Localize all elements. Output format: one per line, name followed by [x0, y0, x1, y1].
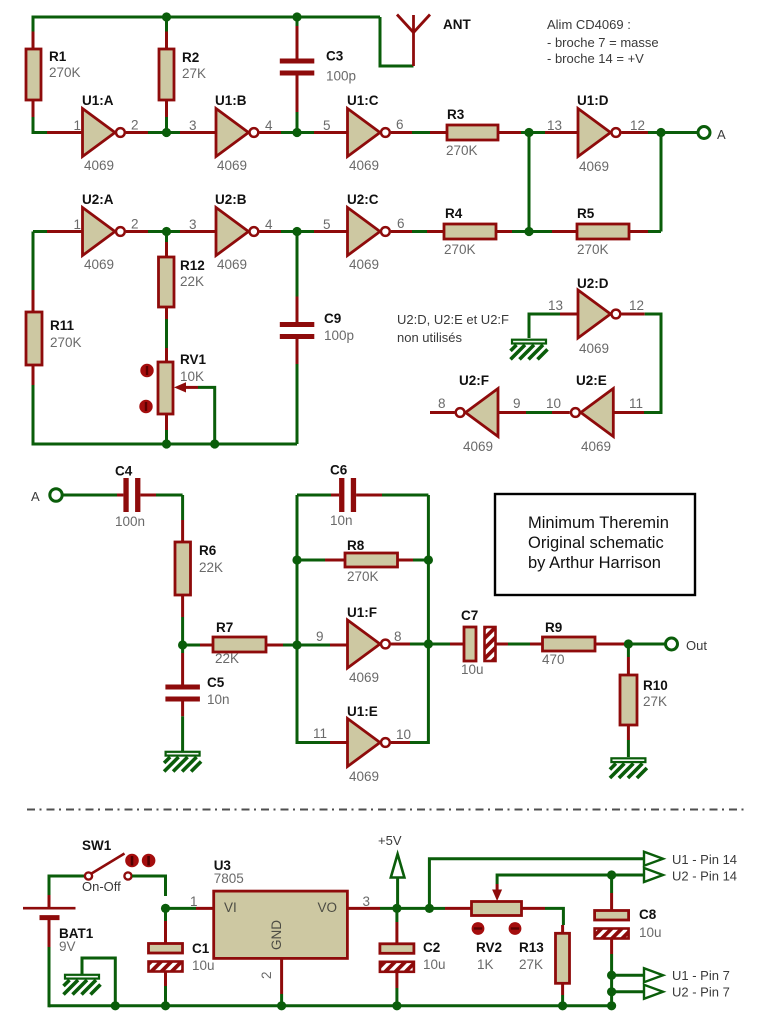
svg-text:2: 2 — [131, 118, 139, 133]
svg-text:U1:B: U1:B — [215, 93, 247, 108]
svg-text:27K: 27K — [519, 957, 543, 972]
wire C7 to R9 — [508, 643, 530, 646]
wire U3 pin3 to +5V node — [380, 907, 397, 910]
pin 4 stub U1:B output — [260, 131, 282, 134]
RV2 wiper arrow — [496, 884, 499, 891]
svg-text:C4: C4 — [115, 464, 133, 479]
svg-text:Out: Out — [686, 638, 707, 653]
pin 8 stub U2:F output — [430, 411, 455, 414]
capacitor C5 10n — [165, 645, 229, 751]
wire to U1 pin 7 — [612, 974, 644, 977]
svg-text:R9: R9 — [545, 620, 562, 635]
junction — [524, 227, 533, 236]
svg-text:GND: GND — [269, 920, 284, 950]
svg-text:270K: 270K — [347, 569, 379, 584]
svg-text:R13: R13 — [519, 940, 544, 955]
wire SW1 node to U3 pin1 — [166, 907, 197, 910]
svg-text:2: 2 — [131, 217, 139, 232]
wire — [497, 875, 644, 884]
junction — [161, 1001, 170, 1010]
pin 13 stub U2:D — [560, 313, 578, 316]
svg-text:U2:E: U2:E — [576, 373, 607, 388]
arrow U2 pin 14 — [644, 868, 663, 882]
arrow U2 pin 7 — [644, 985, 663, 999]
svg-text:27K: 27K — [182, 66, 206, 81]
svg-text:R7: R7 — [216, 620, 233, 635]
potentiometer RV2 1K — [429, 884, 563, 972]
resistor R12 22K — [159, 232, 205, 363]
junction — [162, 12, 171, 21]
RV1 bottom stub — [165, 414, 168, 430]
pin 9 stub U2:F — [498, 411, 526, 414]
svg-text:C7: C7 — [461, 608, 478, 623]
pin 10 stub U1:E output — [391, 741, 410, 744]
wire — [529, 314, 560, 338]
svg-text:U2:B: U2:B — [215, 192, 247, 207]
ground (R10) — [610, 758, 647, 778]
svg-text:1K: 1K — [477, 957, 494, 972]
inverter U2:B (4069) — [215, 192, 258, 272]
svg-text:4: 4 — [265, 217, 273, 232]
wire SW1 to C1 node — [132, 876, 166, 896]
svg-text:10u: 10u — [423, 957, 446, 972]
svg-text:On-Off: On-Off — [82, 879, 121, 894]
inverter U1:A (4069) — [82, 93, 125, 173]
svg-text:U2:D, U2:E et U2:F: U2:D, U2:E et U2:F — [397, 312, 509, 327]
inverter U2:D (4069) — [577, 276, 620, 356]
svg-text:Alim CD4069 :: Alim CD4069 : — [547, 17, 631, 32]
pin 6 stub U1:C output — [391, 131, 412, 134]
svg-text:- broche 7 = masse: - broche 7 = masse — [547, 35, 659, 50]
junction — [656, 128, 665, 137]
ground (battery) — [82, 958, 115, 1006]
svg-text:6: 6 — [396, 117, 404, 132]
resistor R11 270K — [26, 232, 82, 445]
wire — [429, 859, 644, 909]
pin 1 stub U3 — [196, 907, 214, 910]
svg-text:1: 1 — [190, 894, 198, 909]
battery BAT1 9V — [23, 895, 94, 1007]
potentiometer RV1 10K — [139, 352, 214, 444]
svg-text:7805: 7805 — [214, 871, 244, 886]
wire U1:A out to junction — [148, 131, 180, 134]
svg-text:C1: C1 — [192, 941, 210, 956]
inverter U1:C (4069) — [347, 93, 390, 173]
wire to U2 pin 7 — [612, 990, 644, 993]
svg-text:4069: 4069 — [581, 439, 611, 454]
svg-text:3: 3 — [363, 894, 371, 909]
capacitor C8 10u (electrolytic) — [595, 875, 662, 1006]
junction — [425, 904, 434, 913]
wire output junction to C7 — [428, 643, 450, 646]
svg-text:R6: R6 — [199, 543, 217, 558]
resistor R9 470 — [530, 620, 628, 667]
junction — [111, 1001, 120, 1010]
svg-text:SW1: SW1 — [82, 838, 112, 853]
wire — [33, 232, 297, 445]
resistor R6 22K — [175, 520, 223, 646]
terminal Out — [666, 638, 678, 650]
svg-text:100p: 100p — [326, 69, 356, 84]
ground (U2:D input) — [511, 340, 548, 360]
junction — [210, 439, 219, 448]
svg-text:by Arthur Harrison: by Arthur Harrison — [528, 554, 661, 572]
title box — [495, 494, 695, 595]
svg-text:U1:E: U1:E — [347, 704, 378, 719]
pin 2 stub U1:A output — [126, 131, 148, 134]
svg-text:C8: C8 — [639, 907, 657, 922]
ground (C5) — [164, 752, 201, 772]
junction — [161, 904, 170, 913]
RV2 left stub — [445, 907, 472, 910]
terminal A (oscillator output) — [698, 127, 710, 139]
svg-text:R8: R8 — [347, 538, 365, 553]
pin 1 stub U2:A — [47, 230, 83, 233]
pin 13 stub U1:D — [545, 131, 578, 134]
svg-text:U1 - Pin 14: U1 - Pin 14 — [672, 852, 737, 867]
junction — [524, 128, 533, 137]
inverter U1:F (4069) — [347, 605, 390, 685]
wire — [528, 133, 531, 232]
junction — [392, 1001, 401, 1010]
wire net to U2:A input — [33, 230, 47, 233]
junction — [607, 987, 616, 996]
svg-text:RV1: RV1 — [180, 352, 207, 367]
junction — [162, 128, 171, 137]
svg-text:VI: VI — [224, 900, 237, 915]
pin 2 stub U3 — [280, 958, 283, 994]
switch SW1 On-Off — [49, 838, 166, 896]
wire U2:B out to U2:C — [281, 230, 314, 233]
svg-text:U1:F: U1:F — [347, 605, 377, 620]
wire U1:F out to junction — [410, 643, 428, 646]
svg-text:470: 470 — [542, 652, 565, 667]
junction — [424, 555, 433, 564]
svg-text:R12: R12 — [180, 258, 205, 273]
svg-text:10n: 10n — [330, 513, 353, 528]
svg-text:10u: 10u — [639, 925, 662, 940]
svg-text:4069: 4069 — [84, 158, 114, 173]
regulator U3 7805 — [214, 858, 380, 1006]
svg-text:3: 3 — [189, 217, 197, 232]
antenna ANT — [380, 15, 471, 67]
svg-text:2: 2 — [259, 971, 274, 979]
junction — [607, 1001, 616, 1010]
svg-text:270K: 270K — [446, 143, 478, 158]
capacitor C1 10u (electrolytic) — [149, 908, 215, 1005]
svg-text:10: 10 — [396, 727, 411, 742]
svg-text:U1:D: U1:D — [577, 93, 609, 108]
svg-text:- broche 14 = +V: - broche 14 = +V — [547, 51, 644, 66]
svg-text:4069: 4069 — [217, 257, 247, 272]
RV1 wiper arrow — [185, 386, 198, 389]
wire RV2 to R13 — [545, 908, 563, 925]
wire to U1:F input — [297, 644, 330, 647]
wire U2:C out to R4 — [412, 230, 427, 233]
wire RV1 wiper to bottom rail — [198, 387, 215, 444]
RV1 adjust mark bottom — [139, 400, 152, 413]
svg-text:R10: R10 — [643, 678, 668, 693]
capacitor C7 10u (electrolytic) — [450, 608, 508, 677]
svg-text:U2:A: U2:A — [82, 192, 114, 207]
svg-text:4069: 4069 — [463, 439, 493, 454]
svg-text:C2: C2 — [423, 940, 440, 955]
capacitor C4 100n — [115, 464, 183, 530]
svg-text:A: A — [717, 127, 726, 142]
svg-text:12: 12 — [629, 298, 644, 313]
pin 5 stub U1:C — [314, 131, 348, 134]
svg-text:5: 5 — [323, 217, 331, 232]
svg-text:22K: 22K — [180, 274, 204, 289]
svg-text:9: 9 — [513, 396, 521, 411]
svg-text:10u: 10u — [192, 958, 215, 973]
svg-text:3: 3 — [189, 118, 197, 133]
pin 3 stub U3 — [347, 907, 380, 910]
junction — [292, 640, 301, 649]
wire — [181, 495, 184, 520]
inverter U2:F (4069) — [456, 373, 498, 454]
separator dash-dot line — [27, 809, 746, 811]
svg-text:10: 10 — [546, 396, 561, 411]
svg-text:Original schematic: Original schematic — [528, 534, 664, 552]
ground symbol (battery) — [64, 975, 101, 995]
wire C6 left — [297, 494, 331, 497]
svg-text:100n: 100n — [115, 514, 145, 529]
svg-text:1: 1 — [73, 217, 81, 232]
svg-text:4069: 4069 — [579, 341, 609, 356]
capacitor C6 10n — [330, 463, 428, 529]
SW1 mark left — [125, 854, 139, 868]
junction — [607, 971, 616, 980]
svg-text:10K: 10K — [180, 369, 204, 384]
svg-text:270K: 270K — [444, 242, 476, 257]
SW1 mark right — [142, 854, 156, 868]
svg-text:4069: 4069 — [217, 158, 247, 173]
svg-text:U2:D: U2:D — [577, 276, 609, 291]
svg-text:22K: 22K — [199, 560, 223, 575]
arrow U1 pin 14 — [644, 852, 663, 866]
RV2 adjust mark left — [472, 922, 485, 935]
wire U1:B out to U1:C — [281, 131, 314, 134]
svg-text:R2: R2 — [182, 50, 199, 65]
svg-text:11: 11 — [313, 726, 327, 741]
junction — [292, 227, 301, 236]
svg-text:R11: R11 — [50, 318, 75, 333]
svg-text:8: 8 — [438, 396, 446, 411]
svg-text:13: 13 — [548, 298, 563, 313]
pin 11 stub U2:E — [613, 411, 644, 414]
junction — [162, 439, 171, 448]
power +5V symbol — [378, 833, 404, 908]
svg-text:U2:F: U2:F — [459, 373, 489, 388]
junction — [292, 128, 301, 137]
pin 1 stub U1:A — [47, 131, 83, 134]
svg-text:5: 5 — [323, 118, 331, 133]
capacitor C9 100p — [280, 232, 354, 445]
svg-text:4069: 4069 — [349, 158, 379, 173]
wire terminal A to C4 — [63, 494, 118, 497]
wire — [49, 1004, 612, 1007]
C7 left stub — [450, 643, 464, 646]
junction — [292, 555, 301, 564]
resistor R10 27K — [620, 644, 668, 757]
svg-text:9: 9 — [316, 629, 324, 644]
pin 4 stub U2:B output — [260, 230, 282, 233]
svg-text:100p: 100p — [324, 328, 354, 343]
junction — [162, 227, 171, 236]
BAT1 bottom stub — [48, 918, 51, 947]
svg-text:U1:C: U1:C — [347, 93, 379, 108]
svg-text:R4: R4 — [445, 206, 463, 221]
svg-text:9V: 9V — [59, 939, 76, 954]
svg-text:C6: C6 — [330, 463, 348, 478]
svg-text:C9: C9 — [324, 311, 341, 326]
svg-text:ANT: ANT — [443, 17, 471, 32]
svg-text:A: A — [31, 489, 40, 504]
svg-text:11: 11 — [629, 396, 643, 411]
pin 3 stub U1:B — [180, 131, 216, 134]
resistor R3 270K — [430, 107, 529, 158]
junction — [178, 640, 187, 649]
pin 5 stub U2:C — [314, 230, 348, 233]
terminal A (input) — [50, 489, 62, 501]
svg-text:VO: VO — [317, 900, 337, 915]
inverter U1:D (4069) — [577, 93, 620, 174]
wire U1:D out to terminal A — [648, 131, 698, 134]
inverter U1:B (4069) — [215, 93, 258, 173]
BAT1 top stub — [48, 895, 51, 907]
svg-text:non utilisés: non utilisés — [397, 330, 463, 345]
wire ground branch — [82, 958, 115, 1006]
SW1 lever — [92, 854, 125, 874]
wire U1:C out to R3 — [412, 131, 430, 134]
svg-text:U2 - Pin 14: U2 - Pin 14 — [672, 869, 737, 884]
svg-text:C3: C3 — [326, 49, 344, 64]
svg-text:4069: 4069 — [84, 257, 114, 272]
pin 8 stub U1:F output — [391, 643, 410, 646]
wire battery to SW1 — [49, 876, 84, 895]
arrow U1 pin 7 — [644, 968, 663, 982]
wire — [644, 314, 661, 413]
resistor R1 270K — [26, 17, 81, 134]
inverter U2:A (4069) — [82, 192, 125, 272]
svg-text:+5V: +5V — [378, 833, 402, 848]
svg-text:4069: 4069 — [579, 159, 609, 174]
capacitor C3 100p — [280, 17, 356, 133]
svg-text:27K: 27K — [643, 694, 667, 709]
svg-text:22K: 22K — [215, 651, 239, 666]
wire — [410, 495, 428, 743]
wire U2:E out to U2:F in — [526, 411, 552, 414]
pin 10 stub U2:E output — [552, 411, 570, 414]
pin 3 stub U2:B — [180, 230, 216, 233]
svg-text:4069: 4069 — [349, 670, 379, 685]
resistor R7 22K — [183, 620, 297, 666]
svg-text:12: 12 — [630, 118, 645, 133]
pin 12 stub U1:D output — [622, 131, 649, 134]
svg-text:270K: 270K — [49, 65, 81, 80]
wire net to U1:A input — [33, 131, 47, 134]
svg-text:270K: 270K — [50, 335, 82, 350]
junction — [392, 904, 401, 913]
svg-text:13: 13 — [547, 118, 562, 133]
svg-text:10n: 10n — [207, 692, 230, 707]
wire — [33, 17, 380, 134]
svg-text:270K: 270K — [577, 242, 609, 257]
resistor R13 27K — [519, 925, 570, 1006]
pin 2 stub U2:A output — [126, 230, 148, 233]
wire R9 to terminal Out — [628, 643, 665, 646]
pin 9 stub U1:F — [330, 644, 348, 647]
svg-text:U2 - Pin 7: U2 - Pin 7 — [672, 985, 730, 1000]
inverter U2:C (4069) — [347, 192, 390, 272]
inverter U2:E (4069) — [571, 373, 613, 454]
svg-text:U1:A: U1:A — [82, 93, 114, 108]
resistor R4 270K — [427, 206, 529, 257]
wire U2:A out to junction — [148, 230, 180, 233]
wire BAT1 to bottom rail — [48, 947, 51, 1007]
inverter U1:E (4069) — [347, 704, 390, 784]
pin 6 stub U2:C output — [391, 230, 412, 233]
pin 11 stub U1:E — [330, 741, 348, 744]
svg-text:C5: C5 — [207, 675, 225, 690]
svg-text:U1 - Pin 7: U1 - Pin 7 — [672, 968, 730, 983]
C7 right stub — [495, 643, 508, 646]
junction — [292, 12, 301, 21]
svg-text:RV2: RV2 — [476, 940, 502, 955]
wire — [297, 495, 330, 743]
pin 12 stub U2:D output — [622, 313, 645, 316]
RV2 adjust mark right — [509, 922, 522, 935]
junction — [607, 870, 616, 879]
wire junction to U1:D pin13 — [529, 131, 545, 134]
resistor R8 270K — [297, 538, 428, 584]
resistor R2 27K — [159, 17, 206, 133]
RV1 adjust mark top — [140, 364, 153, 377]
svg-text:R5: R5 — [577, 206, 595, 221]
wire — [397, 907, 430, 910]
svg-text:4069: 4069 — [349, 769, 379, 784]
capacitor C2 10u (electrolytic) — [380, 908, 446, 1005]
svg-text:U2:C: U2:C — [347, 192, 379, 207]
svg-text:4: 4 — [265, 118, 273, 133]
RV2 right stub — [522, 907, 546, 910]
wire +5V stem — [396, 878, 399, 909]
wire to antenna — [380, 17, 414, 66]
svg-text:Minimum Theremin: Minimum Theremin — [528, 514, 669, 532]
junction — [624, 639, 633, 648]
svg-text:4069: 4069 — [349, 257, 379, 272]
svg-text:8: 8 — [394, 629, 402, 644]
svg-text:10u: 10u — [461, 662, 484, 677]
wire U3 pin2 to rail — [280, 994, 283, 1006]
junction — [277, 1001, 286, 1010]
svg-text:6: 6 — [397, 216, 405, 231]
svg-text:1: 1 — [73, 118, 81, 133]
svg-text:R1: R1 — [49, 49, 67, 64]
svg-text:R3: R3 — [447, 107, 465, 122]
resistor R5 270K — [529, 206, 661, 257]
junction — [558, 1001, 567, 1010]
wire — [660, 133, 663, 232]
junction — [424, 639, 433, 648]
wire +5V node to RV2 — [429, 907, 445, 910]
